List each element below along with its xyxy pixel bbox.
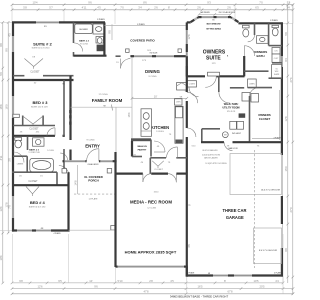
svg-text:47'8: 47'8 [144, 290, 150, 294]
owners bath left WC [254, 23, 256, 35]
svg-text:MAN DOOR: MAN DOOR [228, 147, 238, 150]
svg-text:8 PLATE: 8 PLATE [97, 18, 105, 21]
svg-text:UTILITY ROOM: UTILITY ROOM [222, 107, 239, 110]
svg-text:9 CLNG: 9 CLNG [156, 131, 164, 133]
svg-text:4'6: 4'6 [19, 175, 21, 177]
svg-text:10'5: 10'5 [254, 279, 260, 283]
svg-text:13'4: 13'4 [0, 206, 3, 212]
kitchen island [141, 109, 152, 137]
bed4 closet bifold doors [26, 187, 39, 197]
svg-text:2'6: 2'6 [227, 6, 231, 10]
svg-text:9 CLNG: 9 CLNG [87, 140, 95, 142]
porch bottom edge [69, 229, 116, 231]
svg-text:SHWR: SHWR [274, 74, 280, 76]
svg-text:16'8: 16'8 [0, 104, 3, 110]
top dimension line 1 [11, 3, 295, 6]
LIN boxes right [272, 48, 280, 55]
front wall with sidelights [63, 160, 65, 162]
svg-text:12 CLNG: 12 CLNG [147, 207, 156, 209]
kitchen wall counter [175, 106, 183, 143]
svg-text:5'10: 5'10 [118, 279, 124, 283]
porch roof dashed line [74, 193, 116, 195]
owners bath left wall + door [243, 56, 245, 76]
bath2 right wall [103, 22, 105, 56]
svg-text:2'8: 2'8 [149, 279, 153, 283]
bed4 bottom wall with windows [12, 229, 17, 231]
suite door arc [205, 76, 216, 87]
bed4 right wall [67, 172, 69, 230]
hall wall + utility door [218, 76, 220, 92]
svg-text:7'0: 7'0 [8, 205, 12, 209]
svg-text:CLOSET: CLOSET [154, 169, 163, 171]
svg-text:8'-0 X 7'-0 OH DOOR: 8'-0 X 7'-0 OH DOOR [259, 250, 278, 252]
svg-text:3'0: 3'0 [8, 158, 12, 162]
svg-text:17 CLNG: 17 CLNG [98, 94, 107, 96]
svg-text:9'8: 9'8 [284, 248, 288, 252]
svg-text:4 PLATE: 4 PLATE [53, 232, 61, 235]
bottom dimension line 2 [11, 287, 295, 290]
bath3 left door arc [14, 152, 25, 163]
svg-text:CLOSET: CLOSET [28, 181, 38, 183]
svg-text:CLOSET: CLOSET [259, 117, 271, 121]
svg-text:PANTRY: PANTRY [138, 149, 147, 152]
svg-text:6'8: 6'8 [208, 273, 210, 275]
svg-text:3'4: 3'4 [286, 6, 290, 10]
svg-text:5'0: 5'0 [275, 68, 277, 70]
svg-text:FAMILY ROOM: FAMILY ROOM [92, 98, 123, 103]
hall door arcs [60, 153, 67, 161]
svg-text:5'0: 5'0 [0, 72, 3, 76]
svg-text:CLOSET: CLOSET [30, 72, 40, 74]
svg-text:LINEN: LINEN [17, 163, 24, 165]
svg-text:3'4: 3'4 [138, 6, 142, 10]
svg-text:4 PLATE: 4 PLATE [188, 272, 196, 275]
svg-text:6'0 ALUM DR: 6'0 ALUM DR [88, 163, 100, 166]
covered patio roof line [105, 25, 187, 27]
svg-text:4'5: 4'5 [97, 6, 101, 10]
partition closet / bed4 [12, 184, 69, 186]
svg-text:8'0: 8'0 [212, 19, 214, 21]
porch dim line [76, 165, 78, 194]
bath3 corner tub [30, 158, 54, 171]
svg-text:8 PLATE: 8 PLATE [270, 19, 278, 22]
bath3 toilet nook wall [27, 137, 29, 150]
svg-text:BED # 3: BED # 3 [33, 100, 49, 105]
svg-text:15'0: 15'0 [284, 166, 288, 172]
svg-text:9'5: 9'5 [58, 279, 62, 283]
svg-text:12'6: 12'6 [38, 285, 44, 289]
svg-text:9'6: 9'6 [94, 285, 98, 289]
svg-text:BATH: BATH [256, 54, 264, 58]
svg-text:4'11: 4'11 [0, 155, 3, 160]
svg-text:67'8: 67'8 [228, 290, 234, 294]
top wall left wing [12, 21, 36, 23]
svg-text:KITCHEN: KITCHEN [151, 125, 169, 130]
svg-text:9 CLNG: 9 CLNG [149, 76, 157, 78]
svg-text:WALK-IN: WALK-IN [137, 145, 147, 148]
left dimension line outer [1, 21, 4, 284]
media door arcs [143, 174, 152, 182]
bed4 closet strip top wall [12, 171, 57, 173]
hall wall bed3 side [63, 80, 65, 136]
partition bed3 / bath3 [12, 135, 55, 137]
bed3 door arc [47, 128, 55, 136]
svg-text:BATH # 2: BATH # 2 [79, 40, 89, 43]
svg-text:20'5: 20'5 [260, 285, 266, 289]
BATH #2 shower [75, 24, 93, 34]
svg-text:9'0 CLNG: 9'0 CLNG [80, 43, 88, 45]
owners bottom wall [187, 75, 205, 77]
pantry door arc [154, 141, 165, 152]
owners bath right WC [268, 23, 270, 45]
bath bottom wall [244, 70, 268, 72]
svg-text:SUITE # 2: SUITE # 2 [33, 41, 52, 46]
svg-text:2'6: 2'6 [154, 6, 158, 10]
kitchen interior dim line [131, 97, 188, 100]
media top wall [116, 173, 143, 175]
svg-text:34863 BELMONT BASE - THREE CAR: 34863 BELMONT BASE - THREE CAR RIGHT [170, 295, 229, 299]
family ceiling break [71, 106, 133, 108]
right dimension line outer [292, 3, 295, 295]
svg-text:GARAGE: GARAGE [226, 215, 244, 220]
svg-text:9'10 X 6'8: 9'10 X 6'8 [227, 111, 235, 113]
svg-text:ENTRY: ENTRY [85, 144, 100, 149]
svg-text:HOME APPROX 2835 SQFT: HOME APPROX 2835 SQFT [125, 250, 177, 255]
svg-text:SHOWER: SHOWER [79, 29, 88, 31]
svg-text:4'5: 4'5 [8, 33, 12, 37]
svg-text:4'6: 4'6 [187, 244, 191, 248]
suite2 closet back wall [13, 75, 24, 77]
svg-text:SUITE 11'0 X 13'0: SUITE 11'0 X 13'0 [29, 207, 46, 209]
bath3 toilet [15, 138, 22, 141]
svg-text:9'8: 9'8 [19, 279, 23, 283]
media left wall [114, 152, 116, 267]
svg-text:SUITE: SUITE [206, 55, 221, 61]
svg-text:DINING: DINING [145, 69, 160, 74]
svg-text:4'6: 4'6 [157, 146, 159, 148]
bay dim line [198, 13, 232, 16]
svg-text:SUITE 11'0 X 12'8: SUITE 11'0 X 12'8 [31, 107, 48, 109]
coats closet [187, 81, 196, 87]
svg-text:8'0 X 5'0 ALUM SLDR: 8'0 X 5'0 ALUM SLDR [219, 11, 236, 14]
garage dashed ceiling line [254, 150, 256, 268]
front door arc [87, 149, 99, 161]
svg-text:4x10x8 & ATTIC ROOM: 4x10x8 & ATTIC ROOM [202, 154, 220, 157]
svg-text:6'5: 6'5 [255, 6, 259, 10]
media bottom slider wall [116, 266, 119, 268]
linen closet [13, 155, 27, 157]
svg-text:5'8: 5'8 [23, 6, 27, 10]
patio column line [111, 24, 113, 40]
patio posts [126, 49, 130, 53]
window in suite2 top wall [36, 21, 59, 23]
svg-text:10'4: 10'4 [33, 1, 39, 5]
utility step walls [202, 128, 220, 130]
svg-text:16 SQFT ATTIC FLOORING: 16 SQFT ATTIC FLOORING [205, 162, 227, 165]
bath2 door arc [74, 43, 83, 52]
left outer wall with windows [12, 22, 14, 36]
bottom dimension line 1 [11, 282, 285, 285]
svg-text:COVERED PATIO: COVERED PATIO [130, 38, 155, 42]
cabinet near owners hall [177, 83, 188, 91]
dresser [208, 72, 220, 76]
bath2 toilet [96, 37, 104, 44]
central wall [186, 56, 188, 92]
svg-text:W/D HKUP: W/D HKUP [232, 133, 242, 135]
svg-text:16'4: 16'4 [127, 112, 131, 118]
svg-text:BATH # 3: BATH # 3 [29, 148, 39, 151]
svg-text:9'6: 9'6 [88, 1, 92, 5]
svg-text:9'8: 9'8 [107, 30, 111, 34]
svg-text:16'-0 X 7'-0 OH DOOR: 16'-0 X 7'-0 OH DOOR [261, 190, 281, 192]
mech boxes [242, 93, 250, 102]
svg-text:9'3: 9'3 [207, 1, 211, 5]
svg-text:MEDIA - REC ROOM: MEDIA - REC ROOM [130, 200, 172, 205]
svg-text:27'4: 27'4 [289, 77, 293, 83]
pantry dark counter [131, 138, 151, 141]
svg-text:7'6: 7'6 [168, 162, 170, 164]
hall arc from family [187, 92, 198, 103]
svg-text:9'8: 9'8 [0, 43, 3, 47]
counter cabinet above [175, 99, 183, 105]
bath2 linen dark box [97, 45, 105, 52]
svg-text:12'8: 12'8 [187, 34, 191, 40]
svg-text:1'6: 1'6 [40, 175, 42, 177]
wall below bath2 [74, 55, 107, 57]
svg-text:4 PLATE: 4 PLATE [273, 136, 281, 139]
svg-text:16'5: 16'5 [198, 285, 204, 289]
svg-text:SITTING AREA: SITTING AREA [206, 28, 221, 31]
right dimension line inner [287, 3, 290, 283]
svg-text:LINEN: LINEN [249, 83, 255, 85]
svg-text:BUILT-IN SHELVES: BUILT-IN SHELVES [203, 150, 219, 152]
svg-text:7'0: 7'0 [120, 6, 124, 10]
svg-text:2'6: 2'6 [197, 6, 201, 10]
svg-text:16'0: 16'0 [4, 104, 8, 110]
svg-text:9'4: 9'4 [284, 58, 288, 62]
svg-text:BAY WINDOW: BAY WINDOW [207, 23, 221, 26]
patio door arc [121, 59, 131, 69]
utility linen dark box [239, 113, 246, 117]
suite2/bath2 divider [73, 22, 75, 43]
kitchen hall door arc [167, 147, 178, 158]
svg-text:12'8: 12'8 [284, 116, 288, 122]
svg-text:5' CRNR TUB: 5' CRNR TUB [28, 152, 40, 154]
svg-text:10'4: 10'4 [0, 255, 3, 261]
svg-text:6'8: 6'8 [180, 97, 182, 99]
bath center vanity [257, 36, 269, 44]
bath2 vanity [93, 24, 104, 34]
washer dryer [230, 121, 237, 129]
svg-text:1'6: 1'6 [116, 62, 118, 64]
porch posts [62, 169, 67, 174]
entry/family west wall [69, 76, 71, 140]
svg-text:7'0: 7'0 [259, 1, 263, 5]
right outer wall [281, 22, 283, 56]
utility/closet divider [249, 96, 251, 142]
svg-text:8'6: 8'6 [143, 1, 147, 5]
svg-text:5'8: 5'8 [284, 32, 288, 36]
bay window [187, 21, 191, 23]
svg-text:THREE CAR: THREE CAR [223, 208, 247, 213]
garage top wall [201, 141, 224, 143]
svg-text:4'4: 4'4 [275, 279, 279, 283]
bed3 dresser [13, 114, 19, 117]
bath3 vanity [33, 138, 45, 146]
owners top wall [238, 22, 282, 24]
media closet [149, 158, 151, 174]
svg-text:7'6: 7'6 [169, 134, 171, 136]
svg-text:14'8: 14'8 [74, 180, 78, 186]
svg-text:9'6: 9'6 [62, 83, 64, 85]
kitchen bottom wall [150, 157, 166, 159]
left dimension line inner [7, 21, 10, 234]
svg-text:8'0 SLDR: 8'0 SLDR [150, 52, 158, 54]
svg-text:4'6: 4'6 [141, 162, 143, 164]
svg-text:5'7: 5'7 [49, 6, 53, 10]
utility top wall [230, 87, 244, 89]
svg-text:9 CLNG: 9 CLNG [47, 150, 54, 152]
svg-text:BED # 4: BED # 4 [30, 200, 46, 205]
owners suite left wall [186, 22, 188, 30]
svg-text:ABV W/ LADDER: ABV W/ LADDER [204, 156, 218, 159]
svg-text:14 PLATE: 14 PLATE [89, 197, 99, 200]
partition suite2 / bed3 [12, 79, 74, 81]
svg-text:2'8: 2'8 [133, 154, 135, 156]
svg-text:4'5: 4'5 [170, 279, 174, 283]
svg-text:27'0: 27'0 [289, 207, 293, 213]
walk-in shower [272, 65, 282, 78]
svg-text:COATS: COATS [189, 83, 196, 86]
garage door panels [230, 154, 282, 195]
svg-text:10': 10' [154, 94, 158, 98]
svg-text:4 PLATE: 4 PLATE [274, 272, 282, 275]
svg-text:9'0: 9'0 [4, 48, 8, 52]
svg-text:4'11: 4'11 [82, 6, 87, 10]
bed3 closet box + bifold [22, 116, 24, 126]
linen below bath [248, 79, 257, 88]
svg-text:10': 10' [89, 279, 93, 283]
svg-text:CLOSET: CLOSET [29, 129, 39, 131]
dining top wall with windows [116, 55, 121, 57]
svg-text:BAY WNDW: BAY WNDW [200, 11, 210, 14]
svg-text:8 PLATE: 8 PLATE [137, 23, 145, 26]
owners closet shelf lines [279, 90, 281, 140]
garage right wall with OH doors [281, 143, 283, 155]
top dimension line 2 [11, 9, 295, 12]
bottom dimension line 3 [11, 293, 295, 296]
garage bottom wall [187, 274, 213, 276]
svg-text:SUITE 11'0 X 13'10: SUITE 11'0 X 13'10 [32, 47, 51, 49]
pantry walls [131, 141, 133, 157]
water heater [222, 132, 228, 138]
svg-text:PORCH: PORCH [88, 179, 98, 183]
